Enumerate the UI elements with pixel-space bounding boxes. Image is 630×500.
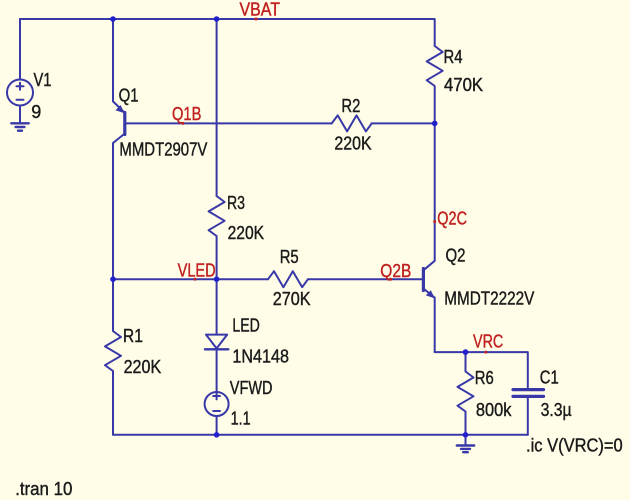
svg-text:220K: 220K <box>228 223 265 243</box>
svg-text:1.1: 1.1 <box>231 408 251 428</box>
svg-text:MMDT2907V: MMDT2907V <box>119 140 207 160</box>
svg-text:Q2: Q2 <box>446 246 466 266</box>
svg-text:270K: 270K <box>273 289 311 309</box>
svg-text:C1: C1 <box>540 367 559 387</box>
svg-text:R1: R1 <box>123 326 143 346</box>
svg-text:Q2C: Q2C <box>437 209 467 229</box>
svg-text:VBAT: VBAT <box>240 0 281 19</box>
svg-text:R5: R5 <box>280 247 299 267</box>
svg-text:9: 9 <box>31 102 41 122</box>
svg-text:Q2B: Q2B <box>380 261 411 281</box>
svg-text:VFWD: VFWD <box>230 378 273 398</box>
svg-text:R3: R3 <box>227 193 245 213</box>
svg-text:220K: 220K <box>124 357 162 377</box>
svg-text:800k: 800k <box>476 400 512 420</box>
svg-text:VRC: VRC <box>473 332 503 352</box>
svg-text:R6: R6 <box>475 368 494 388</box>
svg-text:LED: LED <box>232 315 259 335</box>
svg-text:Q1: Q1 <box>119 86 139 106</box>
svg-text:R4: R4 <box>444 47 463 67</box>
svg-text:.ic V(VRC)=0: .ic V(VRC)=0 <box>526 436 623 456</box>
svg-text:VLED: VLED <box>178 261 216 281</box>
svg-text:1N4148: 1N4148 <box>232 346 289 366</box>
svg-text:V1: V1 <box>34 70 52 90</box>
svg-text:MMDT2222V: MMDT2222V <box>444 289 534 309</box>
svg-text:220K: 220K <box>334 134 371 154</box>
svg-text:Q1B: Q1B <box>172 104 201 124</box>
svg-text:.tran 10: .tran 10 <box>15 479 72 499</box>
svg-text:470K: 470K <box>444 75 483 95</box>
svg-text:R2: R2 <box>341 96 360 116</box>
svg-text:3.3µ: 3.3µ <box>541 400 572 420</box>
